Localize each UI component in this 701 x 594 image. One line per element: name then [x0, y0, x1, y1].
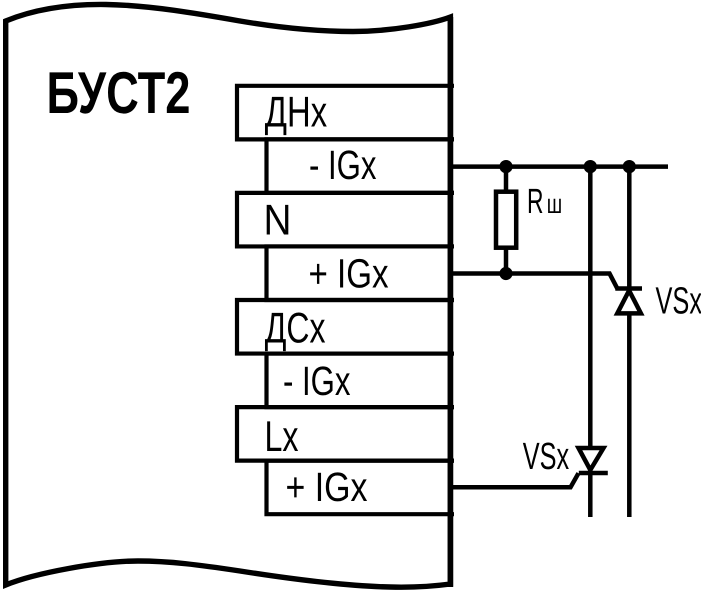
- terminal box +IGx (row 4): [267, 246, 455, 300]
- wire: resistor bottom lead: [504, 248, 509, 274]
- svg-text:ДСх: ДСх: [265, 305, 326, 353]
- svg-text:VSx: VSx: [523, 436, 569, 478]
- junction dot at net B top: [584, 160, 597, 173]
- wire: +IGx (row8) to gate of bottom thyristor: [452, 473, 579, 487]
- svg-text:VSx: VSx: [656, 281, 701, 323]
- svg-text:R: R: [527, 182, 544, 221]
- svg-text:Lx: Lx: [265, 413, 299, 461]
- wire: vertical net A (x=629): [627, 167, 632, 517]
- wire: -IGx (row2) bus to the right: [452, 164, 668, 169]
- junction dot at resistor bottom: [499, 267, 512, 280]
- terminal box ДНх (row 1): [237, 86, 454, 140]
- svg-text:БУСТ2: БУСТ2: [47, 60, 191, 126]
- svg-text:ДНх: ДНх: [265, 89, 328, 137]
- thyristor VSx (bottom) triangle: [579, 448, 604, 470]
- svg-text:- IGx: - IGx: [283, 358, 351, 404]
- wire: resistor top lead: [504, 167, 509, 192]
- terminal box +IGx (row 8): [267, 461, 455, 515]
- thyristor VSx (top) cathode bar: [615, 286, 642, 291]
- junction dot at resistor top: [499, 160, 512, 173]
- svg-text:+ IGx: + IGx: [286, 464, 368, 510]
- svg-text:ш: ш: [547, 189, 562, 219]
- wire: +IGx (row4) to gate of top thyristor: [452, 274, 617, 289]
- thyristor VSx (top) triangle: [617, 291, 641, 314]
- wire: vertical net B (x=590): [588, 167, 593, 517]
- resistor R (Rш) body: [496, 192, 516, 248]
- thyristor VSx (bottom) cathode bar: [579, 471, 608, 476]
- svg-text:+ IGx: + IGx: [309, 250, 389, 296]
- device U1 БУСТ2 body outline: [6, 4, 451, 587]
- terminal box -IGx (row 2): [267, 139, 455, 193]
- svg-text:N: N: [264, 197, 292, 245]
- svg-text:- IGx: - IGx: [309, 142, 377, 188]
- terminal box Lx (row 7): [237, 407, 454, 461]
- terminal box N (row 3): [237, 193, 454, 247]
- terminal box -IGx (row 6): [267, 354, 455, 408]
- junction dot at net A top: [623, 160, 636, 173]
- device right edge (thick): [448, 17, 454, 587]
- terminal box ДСх (row 5): [237, 300, 454, 354]
